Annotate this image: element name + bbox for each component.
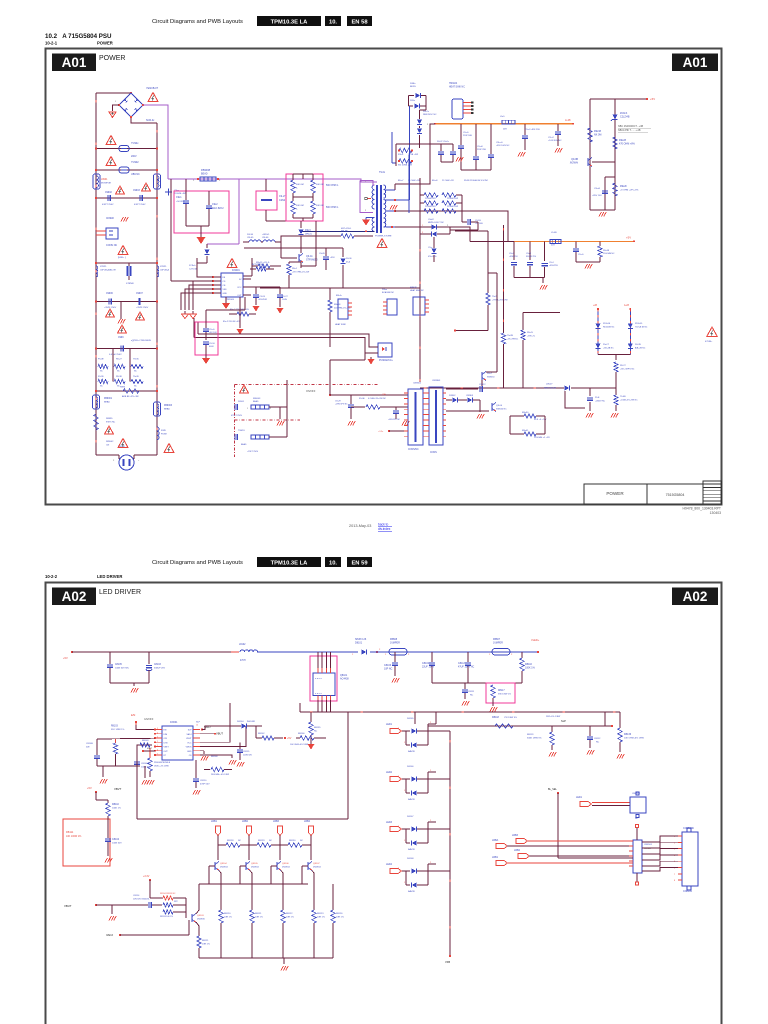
svg-text:A/B+2B NC: A/B+2B NC (635, 347, 646, 350)
wire sec h1 (289, 287, 420, 289)
sheet label box A01 (right) (672, 54, 718, 72)
ground rail1 a (518, 152, 520, 157)
wire vadj to d8104 (202, 726, 241, 730)
svg-text:HEAT SINK NC: HEAT SINK NC (449, 86, 465, 89)
resistor R8130 NC (288, 843, 302, 847)
capacitor C9912 EILF (208, 191, 210, 205)
wire cap bus (432, 682, 522, 684)
capacitor C9x35 (325, 248, 327, 256)
wire r8117 gnd (492, 698, 494, 706)
wire rail 3 (blue) (407, 651, 492, 653)
svg-text:NK 0M: NK 0M (594, 134, 601, 137)
svg-text:+29FT 250V: +29FT 250V (247, 451, 259, 453)
svg-text:BAV99: BAV99 (408, 798, 415, 801)
+12V rail (orange) (435, 123, 573, 125)
svg-text:CN9M2: CN9M2 (106, 218, 115, 220)
wire drain 2 (300, 236, 302, 253)
wire diode joins (417, 730, 428, 732)
svg-text:LED4: LED4 (386, 863, 393, 866)
svg-text:CN99E3: CN99E3 (432, 380, 441, 382)
warning triangle c9902 (116, 186, 125, 194)
ground C9-29 (348, 421, 350, 426)
capacitor D9-0T (440, 144, 442, 151)
svg-text:R8110: R8110 (112, 803, 120, 806)
svg-text:CONN/NC: CONN/NC (408, 449, 419, 451)
wire rail2 gnd bus (514, 277, 545, 279)
svg-text:1: 1 (422, 225, 423, 227)
svg-text:R8130: R8130 (289, 840, 296, 842)
transistor Q9-04 (491, 403, 493, 411)
wire bl wire drop (604, 712, 606, 726)
ground IC gnd pin (201, 756, 203, 761)
connector CN9001 (408, 389, 423, 445)
svg-text:NC: NC (596, 742, 600, 744)
wire divider jog (488, 272, 497, 274)
fuse T9901 (157, 427, 159, 440)
svg-text:CONN NC: CONN NC (106, 244, 117, 247)
svg-text:2N2904: 2N2904 (282, 867, 290, 869)
svg-text:89x-2 220 0M +0%: 89x-2 220 0M +0% (223, 321, 240, 323)
wire rail2 gnd 2 (576, 261, 600, 263)
svg-text:AC4438: AC4438 (340, 678, 349, 681)
ground ladder (283, 958, 285, 964)
IC right pins (193, 729, 200, 731)
svg-text:LRB2: LRB2 (514, 849, 521, 852)
base bus (199, 883, 308, 885)
diode D9x25 (432, 249, 437, 254)
svg-text:POWER: POWER (606, 491, 624, 496)
ground c8114 (111, 905, 113, 914)
wire sec h2 (412, 227, 470, 241)
svg-text:ZC9xh: ZC9xh (189, 265, 196, 267)
svg-text:R9-38: R9-38 (116, 376, 123, 378)
wire flag stem 3 (279, 836, 281, 861)
svg-text:330UF 26V: 330UF 26V (154, 668, 166, 670)
svg-text:C9-x8: C9-x8 (594, 188, 601, 190)
svg-text:D8107: D8107 (407, 816, 414, 818)
svg-text:LRB1: LRB1 (492, 856, 499, 859)
resistor row2a (424, 201, 438, 205)
ground rail2 (540, 285, 542, 290)
capacitor C8111 (464, 683, 466, 689)
resistor R9x15 (258, 264, 270, 268)
svg-text:C9-27: C9-27 (282, 296, 289, 298)
inductor L8102 (240, 650, 258, 652)
option box R8111 (63, 819, 110, 866)
ground R8105 (147, 780, 149, 785)
svg-text:VLED+: VLED+ (531, 638, 540, 642)
svg-text:R9-3B 22OHM+9W 0.5C/NC: R9-3B 22OHM+9W 0.5C/NC (464, 180, 489, 182)
wire ic drop (239, 297, 241, 328)
diode D9-36b (342, 248, 344, 257)
resistor row3b (442, 209, 456, 213)
diode string D9-05 (409, 95, 415, 97)
diode D8106.b (412, 791, 417, 796)
svg-text:C9906: C9906 (106, 293, 113, 295)
resistor R8110 (95, 791, 97, 793)
resistor R9x41 (524, 432, 536, 436)
wire primary gnd stub (366, 217, 375, 219)
inductor L9x5 on rail (502, 120, 515, 124)
resistor F9-0E (98, 364, 108, 368)
svg-text:C9h-x5: C9h-x5 (496, 142, 504, 144)
transformer primary winding b (372, 218, 374, 232)
wire right block left rail (589, 99, 591, 210)
svg-text:120OHM +/L +5R: 120OHM +/L +5R (534, 437, 550, 439)
svg-text:C9907: C9907 (136, 293, 143, 295)
svg-text:7: 7 (157, 754, 158, 756)
resistor R8106 (300, 736, 314, 740)
svg-text:23 OHM +9R: 23 OHM +9R (408, 180, 420, 182)
svg-text:FB9003: FB9003 (253, 398, 261, 400)
header chassis box TPM10.3E LA (257, 557, 321, 567)
svg-text:PC9002/C0+: PC9002/C0+ (379, 359, 393, 362)
svg-text:D8106: D8106 (407, 766, 414, 768)
svg-text:o o o o: o o o o (315, 693, 322, 695)
driver box Q8101 (310, 656, 337, 701)
ferrite bead CN-05 (249, 240, 261, 242)
capacitor C9x2 (513, 241, 515, 260)
svg-text:LED DRIVER: LED DRIVER (99, 589, 141, 596)
svg-text:R8114 R8115 NC: R8114 R8115 NC (160, 893, 176, 895)
resistor R8109 loop (140, 743, 150, 747)
warning triangle c9903 (142, 183, 151, 191)
wire zc bottom (206, 244, 208, 248)
svg-text:2R2+6% 1/8W: 2R2+6% 1/8W (546, 716, 561, 718)
svg-text:F9-0E: F9-0E (98, 359, 104, 361)
wire +5V rail top (590, 98, 647, 100)
svg-text:C8110: C8110 (200, 780, 207, 782)
svg-text:+130B+3%+9W NC: +130B+3%+9W NC (620, 400, 638, 402)
svg-text:R8126: R8126 (336, 913, 343, 915)
wire cn8101 top stub (636, 828, 638, 840)
wire vmos right (200, 726, 246, 747)
wire flag to diode (402, 730, 410, 732)
resistor R9x38b (599, 241, 601, 246)
wire led1 pair (592, 802, 630, 804)
feedback loop wire (137, 745, 152, 819)
svg-text:C9-x5: C9-x5 (578, 254, 584, 256)
svg-text:47UF 100V NC: 47UF 100V NC (458, 666, 474, 669)
svg-text:470+0.2G: 470+0.2G (428, 256, 437, 258)
choke L9901 right (154, 174, 161, 189)
svg-text:D8108: D8108 (407, 858, 414, 860)
wire driver pins top (317, 652, 319, 673)
wire bundle pin ticks (629, 840, 633, 842)
svg-text:VBUT: VBUT (186, 738, 192, 740)
capacitor C8115 (239, 742, 241, 749)
svg-text:R9x2L: R9x2L (527, 332, 534, 334)
transformer secondary winding (384, 200, 386, 228)
wire r9x2l elbow (523, 312, 560, 314)
svg-text:A-28: A-28 (565, 118, 571, 122)
svg-text:+5V: +5V (287, 737, 292, 740)
svg-text:R8120: R8120 (224, 913, 231, 915)
wire dim long (97, 737, 155, 740)
svg-text:C8112: C8112 (594, 738, 601, 740)
wire fb bus (420, 387, 545, 389)
svg-text:10K 100W 1%: 10K 100W 1% (66, 835, 82, 838)
svg-text:C9 x2: C9 x2 (548, 137, 554, 139)
svg-text:+5V: +5V (650, 97, 655, 101)
svg-text:+5V: +5V (63, 656, 68, 660)
capacitor C8112 (589, 726, 591, 736)
capacitor C9-x5r (460, 124, 462, 145)
ic Q8101 AC4438 (313, 673, 335, 696)
capacitor C9906 (96, 301, 157, 303)
svg-text:8: 8 (674, 880, 675, 882)
svg-text:POWER: POWER (99, 55, 125, 62)
svg-text:100N: 100N (282, 299, 287, 301)
wire source 2 (288, 275, 290, 288)
capacitor C8108 (134, 761, 140, 763)
flag LED2 (246, 826, 251, 836)
wire emitter 1 (250, 871, 252, 874)
svg-text:22OHM +9W: 22OHM +9W (447, 198, 458, 200)
ground IC left (192, 311, 194, 314)
zener ZD9-6D (628, 324, 633, 329)
svg-text:D8105: D8105 (407, 718, 414, 720)
wire secondary pin 1 (386, 199, 396, 201)
svg-text:GND: GND (223, 293, 228, 295)
svg-text:+35PF 250V: +35PF 250V (136, 307, 149, 309)
resistor row1a (424, 193, 438, 197)
wire ovp left (143, 750, 155, 752)
resistor R9x-B (237, 312, 249, 316)
wire cn8101 bottom stub (636, 873, 638, 882)
svg-text:9/375 NC: 9/375 NC (106, 422, 116, 424)
svg-text:280OHM+-6% 1/8W: 280OHM+-6% 1/8W (211, 774, 229, 776)
ground lf1 (279, 407, 281, 419)
wire chain feed (414, 712, 416, 724)
svg-text:3: 3 (422, 232, 423, 234)
diode D8105.a (412, 729, 417, 734)
svg-text:a[]7820+C7N8-96EW: a[]7820+C7N8-96EW (131, 340, 151, 342)
warning triangle NR (105, 426, 114, 434)
svg-text:500 OHM /L: 500 OHM /L (326, 207, 339, 209)
svg-text:ON/OFF: ON/OFF (306, 390, 316, 393)
fuse F9902 (96, 169, 157, 171)
svg-text:C9903: C9903 (133, 190, 140, 192)
svg-text:29xC7: 29xC7 (603, 344, 610, 346)
svg-text:7515G5804: 7515G5804 (666, 493, 685, 497)
svg-text:5: 5 (157, 737, 158, 739)
wire zener join (598, 354, 630, 356)
ground diodes (477, 414, 479, 419)
resistor R8116 (521, 652, 523, 658)
flag LED4 (308, 826, 313, 836)
bridge rectifier D9901 (119, 93, 143, 117)
wire bead row (243, 241, 249, 243)
svg-text:7V/90x: 7V/90x (131, 142, 139, 145)
svg-text:CN9001: CN9001 (413, 383, 422, 385)
svg-text:C999: C999 (118, 337, 124, 339)
transistor Q9-08 (587, 158, 589, 166)
sheet label box A02 (right) (672, 588, 718, 606)
diode D9x3 (299, 230, 304, 235)
wire q9x07 (496, 370, 498, 372)
capacitor C9-4 (544, 241, 546, 261)
wire right block bottom (590, 209, 615, 211)
svg-text:R8136: R8136 (624, 733, 632, 736)
svg-text:R8103: R8103 (111, 726, 118, 728)
resistor R9x24 (311, 201, 315, 214)
ground C9-4E (586, 413, 588, 418)
wire sub rail (605, 176, 615, 178)
net VBUT stub (200, 733, 215, 735)
svg-text:470H: 470H (240, 660, 246, 662)
svg-text:Q8107: Q8107 (313, 863, 320, 865)
svg-text:C9E: C9E (382, 394, 387, 396)
svg-text:13R 1%: 13R 1% (202, 944, 210, 946)
svg-text:FB9008: FB9008 (201, 168, 211, 172)
wire divider feed (455, 230, 488, 232)
bottom bus (199, 957, 333, 959)
svg-text:D9-2x: D9-2x (423, 111, 430, 113)
wire diodes (446, 399, 452, 401)
wire rail 4 (blue) (510, 651, 538, 653)
heatsink 1b (338, 299, 348, 319)
diode D8106.a (412, 777, 417, 782)
svg-text:B9h4+: B9h4+ (336, 295, 343, 297)
svg-text:FB9003: FB9003 (164, 405, 173, 407)
wire base 2 (271, 865, 277, 867)
zener ZD9-0E (596, 324, 601, 329)
capacitor C9-4E (589, 388, 591, 396)
svg-text:TD/CA 1B NC: TD/CA 1B NC (635, 326, 648, 329)
ground C8112 (587, 750, 589, 755)
svg-text:LRBA: LRBA (492, 839, 499, 842)
wire emitter 3 (312, 871, 314, 874)
svg-text:+88%/L: +88%/L (262, 234, 270, 236)
capacitor C8113 (467, 652, 469, 662)
wire primary bus 2 (170, 191, 172, 281)
warning triangle IC (227, 259, 237, 268)
svg-text:R9-27: R9-27 (620, 365, 627, 367)
svg-text:LED3: LED3 (386, 821, 393, 824)
ground array top (456, 157, 458, 162)
thermistor NR9002 (94, 414, 98, 430)
svg-text:3: 3 (157, 728, 158, 730)
svg-text:+09N 5PV NC: +09N 5PV NC (388, 419, 401, 421)
ground C9x0E (402, 421, 404, 426)
resistor R9-08 (323, 235, 341, 237)
svg-text:TPM10.3E LA: TPM10.3E LA (271, 19, 309, 25)
svg-text:+09N 5PV NC: +09N 5PV NC (335, 404, 348, 406)
wire cn8101 to cn8104 (642, 836, 678, 842)
svg-text:4: 4 (157, 732, 158, 734)
resistor row2b (442, 201, 456, 205)
svg-text:F9h-6: F9h-6 (398, 154, 404, 156)
ground ic drop (237, 329, 244, 335)
svg-text:BAV99: BAV99 (408, 848, 415, 851)
svg-text:Q9-04: Q9-04 (496, 405, 503, 407)
capacitor C9-x8r (475, 124, 477, 156)
svg-text:R9x41: R9x41 (522, 430, 529, 432)
resistor R9E3 rung (96, 390, 157, 392)
standby dashed boundary (234, 384, 379, 386)
svg-text:C8104: C8104 (112, 838, 120, 841)
controller IC PR9002 (221, 273, 243, 297)
svg-text:FWD: FWD (161, 430, 166, 432)
svg-text:+10N 50V NC: +10N 50V NC (548, 140, 562, 142)
ground input caps (131, 688, 133, 693)
ground snubber (202, 358, 210, 364)
wire diode joins (417, 778, 428, 780)
resistor R9x18 (328, 300, 332, 312)
ground C9-27 (277, 308, 284, 314)
svg-text:A01: A01 (683, 55, 708, 70)
capacitor C9909 (96, 348, 157, 350)
inductor L9-0B (550, 239, 561, 243)
svg-text:FB9001: FB9001 (104, 398, 113, 400)
svg-text:+2B/2V NC: +2B/2V NC (595, 401, 606, 403)
optocoupler PC9002 (378, 343, 392, 357)
svg-text:D8101: D8101 (355, 642, 363, 645)
warning triangle c9907 (136, 312, 145, 320)
svg-text:400V: 400V (209, 346, 214, 348)
wire divider v1b (487, 305, 489, 331)
diode D8105.b (412, 743, 417, 748)
resistor 79x35 (131, 364, 143, 368)
wire to bus 2 (282, 923, 284, 958)
svg-text:R8121: R8121 (255, 913, 262, 915)
svg-text:POWER-STORE: POWER-STORE (375, 236, 392, 238)
resistor R9x1 sense (289, 261, 301, 263)
warning triangle transformer (377, 239, 387, 248)
mosfet Q9001 STF9N65 (298, 254, 300, 262)
wire emitter 2 (281, 871, 283, 874)
wire divider v2 (503, 225, 505, 333)
diode D9-2x b (417, 129, 422, 134)
title block revision strip (703, 481, 722, 504)
svg-text:C8103: C8103 (154, 664, 161, 666)
svg-text:A-28: A-28 (624, 304, 630, 307)
wire drain (navy) (301, 230, 375, 232)
capacitor C8106 (394, 652, 396, 662)
svg-text:BEAD: BEAD (253, 400, 259, 403)
svg-text:Q8106: Q8106 (282, 863, 289, 865)
svg-text:NBC 2N4934DCT...+4B: NBC 2N4934DCT...+4B (618, 125, 643, 128)
wire to bus 1 (251, 923, 253, 958)
svg-text:C9-x: C9-x (428, 247, 432, 249)
resistor R9x38 (588, 128, 592, 142)
svg-text:C9-x5: C9-x5 (463, 132, 469, 134)
ground C9-x9 (555, 148, 557, 153)
choke X29PL left (96, 266, 98, 277)
svg-text:7V/902: 7V/902 (131, 161, 139, 164)
wire array rail left (419, 178, 421, 240)
wire bead1 out (269, 406, 287, 408)
svg-text:BKD5: BKD5 (410, 86, 416, 88)
svg-text:200V: 200V (131, 155, 137, 158)
svg-text:B9-x8: B9-x8 (432, 180, 438, 182)
capacitor C9x2x (452, 144, 454, 151)
wire box bottom (107, 852, 109, 856)
capacitor C9-x5 (205, 310, 207, 328)
capacitor C8104 (107, 816, 109, 838)
svg-text:UB9 NC: UB9 NC (131, 173, 140, 176)
ground IC cs (229, 760, 231, 765)
svg-text:D9x3: D9x3 (305, 229, 311, 232)
svg-text:+3K+9W%/L: +3K+9W%/L (507, 339, 519, 341)
svg-text:14: 14 (196, 725, 198, 727)
wire driver pins bottom (317, 696, 319, 713)
svg-text:R9E3: R9E3 (120, 387, 126, 389)
warning triangle inlet (164, 444, 174, 453)
svg-text:POWER: POWER (97, 41, 113, 46)
svg-text:LED DRIVER: LED DRIVER (97, 574, 122, 579)
